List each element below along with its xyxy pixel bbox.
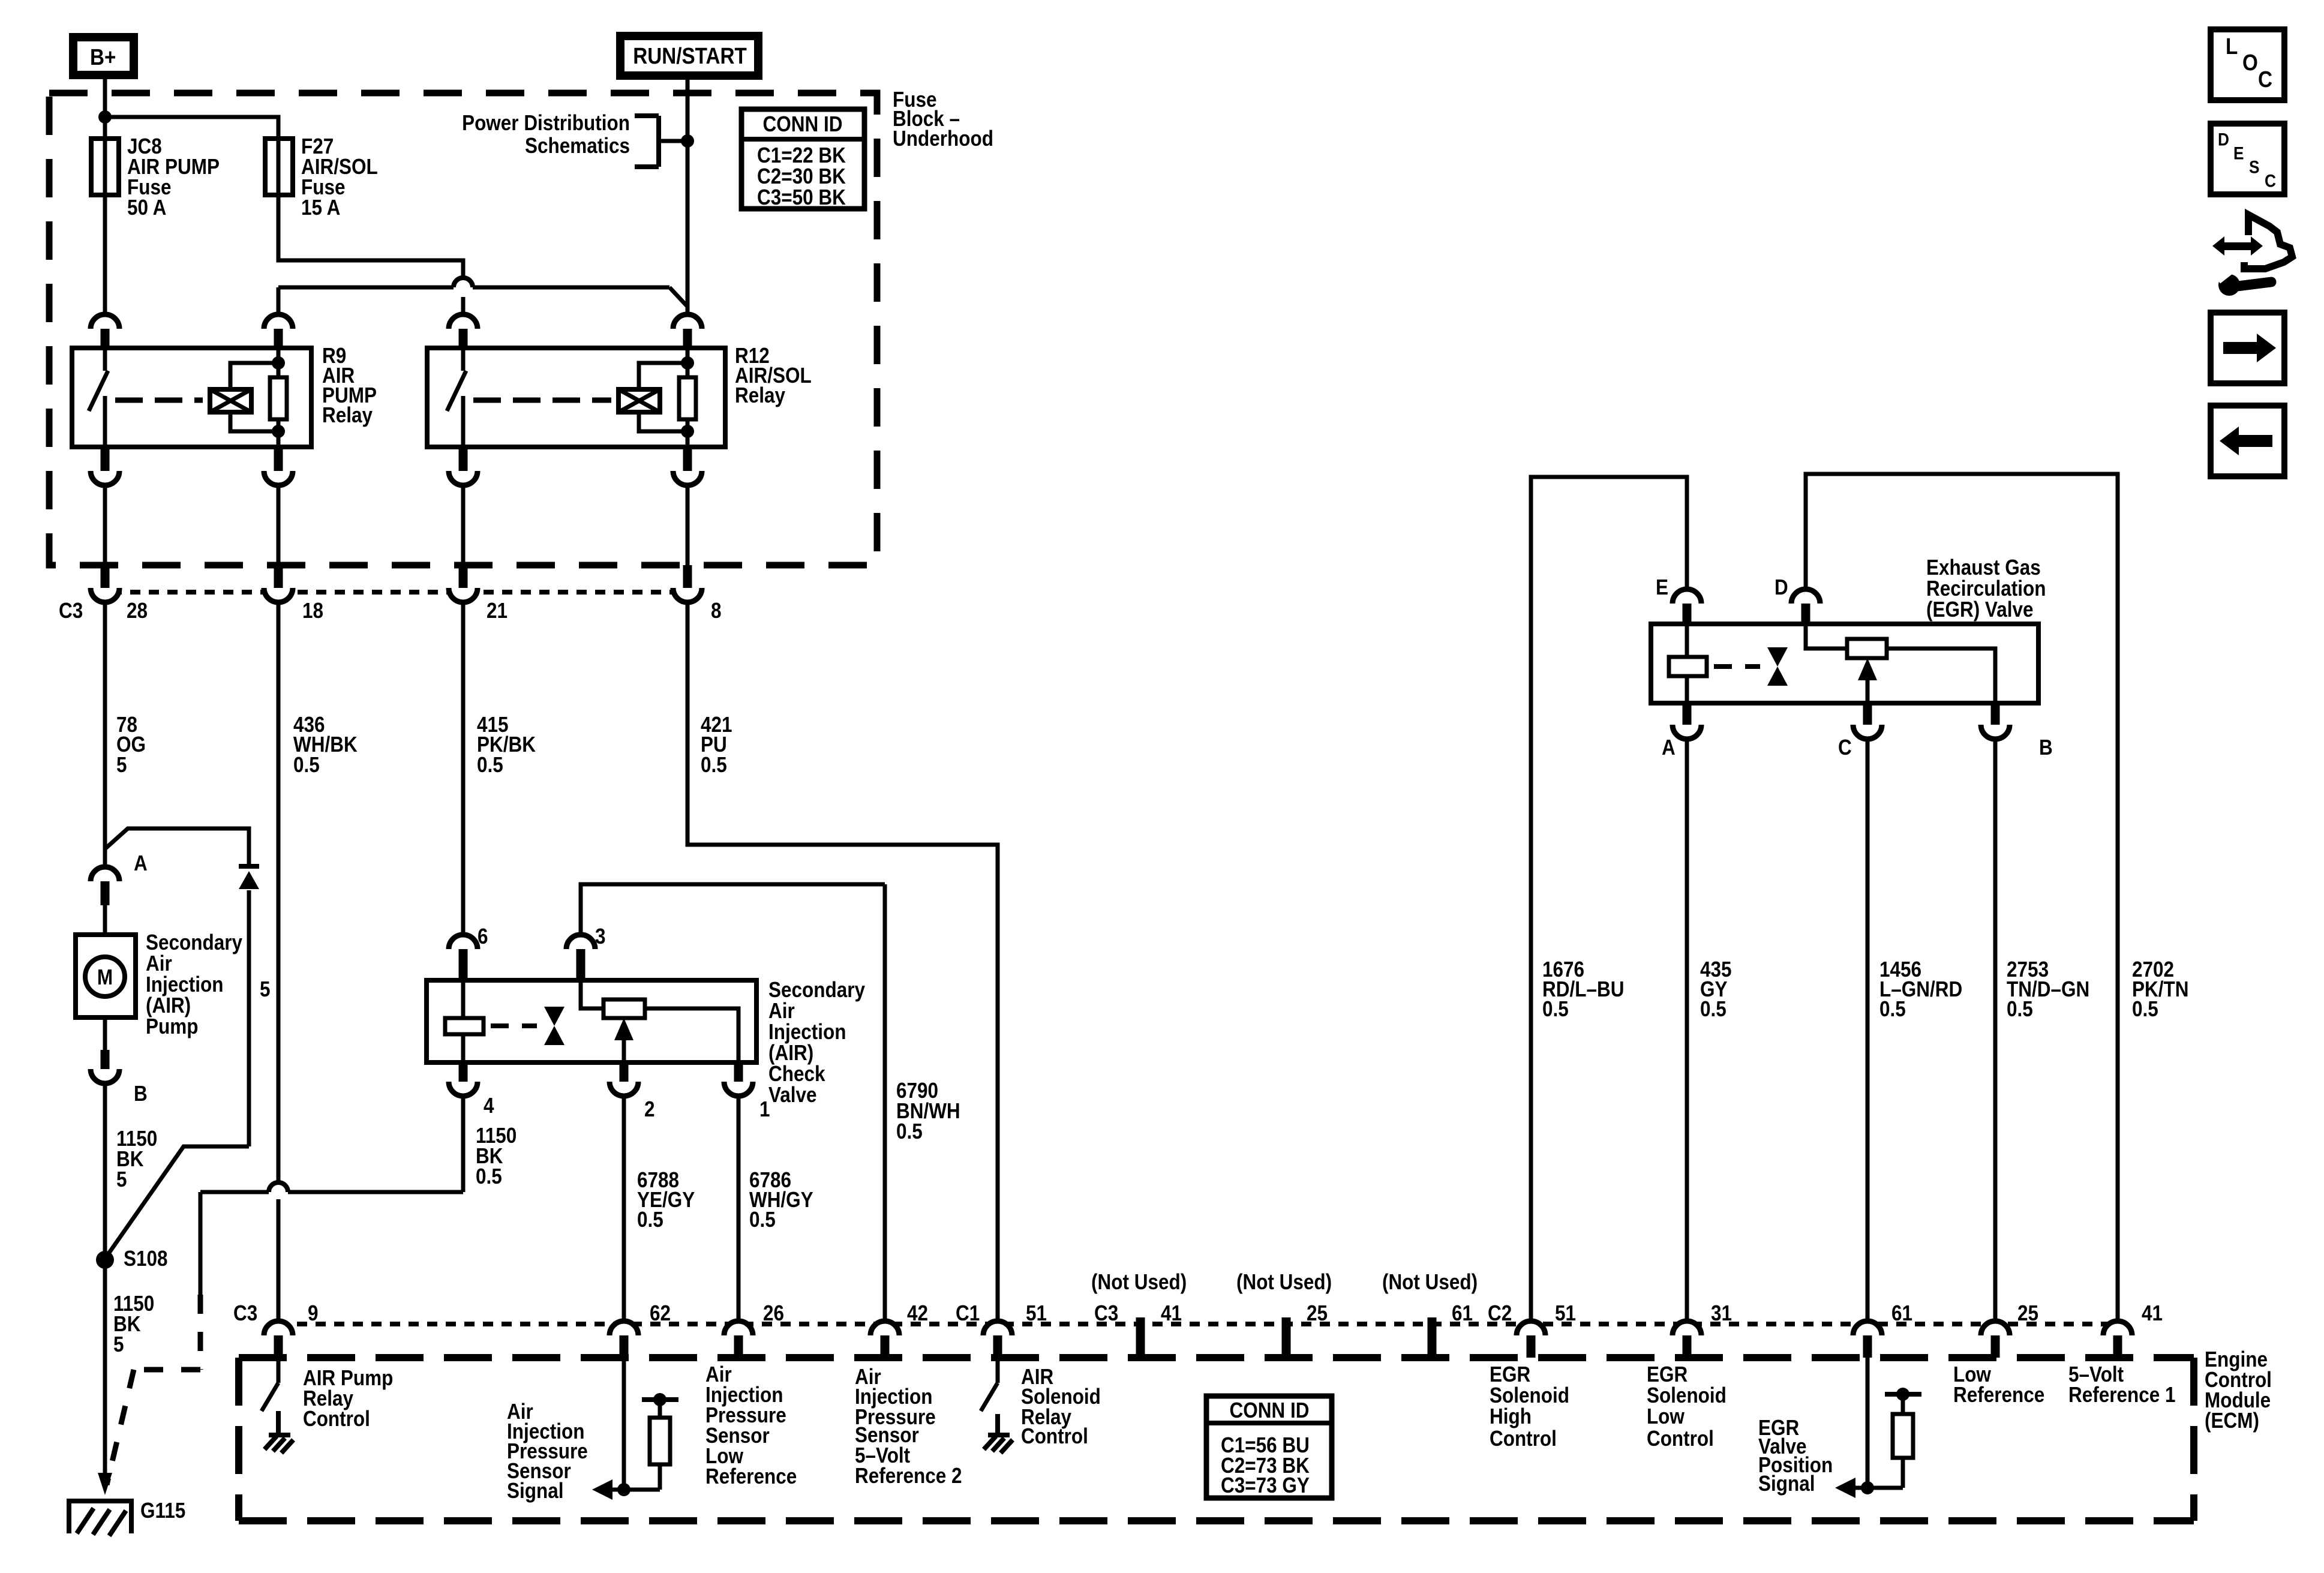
svg-text:L: L [2226,34,2238,59]
connector ECM pin 25 not used [1282,1317,1291,1355]
svg-text:0.5: 0.5 [896,1119,923,1143]
svg-text:51: 51 [1555,1301,1576,1325]
svg-text:25: 25 [2017,1301,2038,1325]
ECM ground (AIR solenoid) [984,1414,1013,1453]
svg-text:Pump: Pump [146,1014,198,1038]
connector check valve pin 1 [724,1062,753,1096]
svg-text:CONN ID: CONN ID [1230,1398,1310,1422]
connector ECM pin 62 [609,1321,638,1358]
svg-text:61: 61 [1452,1301,1473,1325]
EGR valve box [1651,624,2038,703]
wire 421 PU label [701,713,732,777]
EGR wiper arrow [1858,658,1877,703]
svg-text:0.5: 0.5 [2132,997,2158,1021]
bypass jumper 5 [105,828,259,1259]
svg-text:High: High [1490,1404,1532,1428]
svg-text:3: 3 [595,924,606,948]
relay R12 resistor [679,348,696,447]
conn id table (fuse block) [741,109,864,209]
wire 435 GY [1685,738,1689,1322]
svg-text:(Not Used): (Not Used) [1236,1270,1332,1294]
pin label 62 [650,1301,671,1325]
wire 1456 L-GN/RD [1866,738,1870,1322]
svg-text:0.5: 0.5 [293,753,320,777]
wire RUN/START down [686,77,690,316]
relay R12 box [427,348,725,447]
wire 1150 BK 0.5 [200,1095,463,1192]
connector ECM C1 pin 51 [983,1321,1012,1358]
label EGR Solenoid Low Control [1647,1362,1727,1451]
svg-text:Control: Control [1647,1427,1714,1451]
connector check valve pin 4 [449,1062,478,1096]
svg-text:4: 4 [484,1094,494,1118]
svg-text:61: 61 [1891,1301,1912,1325]
relay R9 connector pin 30 top [91,314,119,349]
crossover hop [454,278,473,287]
svg-text:0.5: 0.5 [749,1208,776,1232]
dashed ground path to G115 [107,1192,200,1485]
label EGR Valve Position Signal [1758,1416,1833,1496]
wire 6790 BN/WH down [883,884,887,1322]
wire R12 switch out [461,484,466,565]
relay R12 connector pin 85 top [673,314,702,349]
connector check valve pin 3 [566,935,595,981]
pin label 3 [595,924,606,948]
relay R12 connector pin 86 top [449,314,478,349]
label AIR Solenoid Relay Control [1021,1365,1101,1448]
connector check valve pin 2 [609,1062,638,1096]
wire 1150 BK 5 label (lower) [113,1292,154,1356]
pin label 42 [907,1301,928,1325]
svg-text:B: B [134,1082,148,1106]
svg-text:C: C [1838,736,1852,760]
svg-text:C3=73 GY: C3=73 GY [1221,1473,1310,1497]
EGR actuator dash [1714,664,1760,669]
pin label 41 (2) [2142,1301,2163,1325]
label Air Injection Pressure Sensor Low Reference [705,1362,797,1488]
ground G115 [67,1499,134,1536]
svg-text:26: 26 [763,1301,784,1325]
icon arrow right box [2211,313,2284,383]
ECM switch AIR pump relay control [262,1358,278,1411]
svg-text:Reference: Reference [1953,1383,2044,1407]
wire 1150 BK 5 label (upper) [116,1127,157,1191]
wire EGR 5V feed [1806,474,2118,1322]
wire 435 GY label [1700,957,1732,1021]
pin label A (EGR) [1662,736,1676,760]
wire 2753 TN/D-GN label [2007,957,2089,1021]
pin label C3 [233,1301,257,1325]
icon LOC box [2211,29,2284,100]
fuse block connector dotted line [112,590,687,595]
svg-text:Valve: Valve [768,1083,817,1107]
svg-text:C3: C3 [233,1301,257,1325]
relay R9 label [322,344,377,427]
svg-text:0.5: 0.5 [476,1164,502,1188]
wire 1676 RD/L-BU label [1542,957,1624,1021]
relay R9 box [72,348,311,447]
relay R12 actuator dash [473,398,611,403]
wire R9 switch out [103,484,107,565]
svg-text:0.5: 0.5 [1879,997,1906,1021]
svg-text:42: 42 [907,1301,928,1325]
pin label D [1774,575,1788,599]
svg-text:41: 41 [1161,1301,1182,1325]
pin label C (EGR) [1838,736,1852,760]
check valve label [768,978,865,1107]
fuse F27 label [301,134,378,220]
pin label B [134,1082,148,1106]
svg-text:C3: C3 [1094,1301,1118,1325]
svg-text:RUN/START: RUN/START [633,43,747,69]
connector EGR pin C [1853,703,1882,739]
connector EGR pin A [1673,703,1701,739]
svg-text:21: 21 [487,599,508,623]
svg-text:E: E [1656,575,1668,599]
relay R9 connector bottom left [91,447,119,485]
ECM connector dotted line [278,1322,2118,1326]
connector ECM C3 pin 9 [264,1321,293,1358]
relay R12 coil [618,363,687,431]
check valve valve symbol [544,1007,565,1045]
power distribution bracket [635,116,687,167]
svg-text:Control: Control [1021,1424,1088,1448]
wire F27 to relay R12 switch [278,195,463,316]
label 5-Volt Reference 1 [2068,1362,2176,1407]
icon DESC box [2211,124,2284,194]
label EGR Solenoid High Control [1490,1362,1569,1451]
pin label 26 [763,1301,784,1325]
svg-text:5: 5 [116,1167,127,1191]
icon arrow left box [2211,406,2284,476]
wire RUN/START to relay coils [278,287,687,316]
svg-text:(Not Used): (Not Used) [1382,1270,1478,1294]
svg-text:G115: G115 [140,1499,185,1523]
pin label B (EGR) [2039,736,2053,760]
wire into pump [103,903,107,935]
ECM signal arrow pin 62 [592,1358,630,1500]
check valve potentiometer [581,980,738,1062]
wire EGR solenoid high feed [1531,477,1687,1322]
svg-text:2: 2 [644,1097,655,1121]
relay R12 connector bottom left [449,447,478,485]
svg-text:B+: B+ [90,44,116,70]
EGR valve symbol [1767,647,1788,686]
svg-text:5: 5 [116,753,127,777]
connector EGR pin B [1981,703,2010,739]
relay R12 connector bottom right [673,447,702,485]
svg-text:0.5: 0.5 [637,1208,663,1232]
icon vehicle shortcut [2212,215,2292,296]
splice S108 [96,1251,114,1269]
connector ECM pin 61 not used [1428,1317,1437,1355]
svg-text:C1: C1 [956,1301,980,1325]
wire 78 OG 5 label [116,713,146,777]
node R12 coil bottom [681,425,694,438]
svg-text:18: 18 [302,599,323,623]
label S108 [124,1247,168,1271]
power distribution label [462,111,630,158]
connector C3 pin 21 [449,565,478,602]
pin label E [1656,575,1668,599]
svg-text:(ECM): (ECM) [2205,1409,2259,1433]
relay R9 switch [89,348,108,447]
fuse F27 [265,139,293,195]
relay R9 resistor [270,348,287,447]
connector ECM pin 41 not used [1136,1317,1145,1355]
svg-text:Reference 1: Reference 1 [2068,1383,2176,1407]
wire 6788 YE/GY [622,1095,626,1322]
svg-text:31: 31 [1711,1301,1732,1325]
label 5 (bypass) [260,977,271,1001]
svg-text:C3=50 BK: C3=50 BK [757,185,846,209]
svg-text:0.5: 0.5 [2007,997,2033,1021]
label (Not Used) 3 [1382,1270,1478,1294]
wire B+ down [103,79,107,139]
label (Not Used) 1 [1091,1270,1187,1294]
label (Not Used) 2 [1236,1270,1332,1294]
ECM signal arrow pin 61 [1835,1358,1874,1498]
wire JC8 to relay R9 switch [103,195,107,316]
connector ECM pin 42 [870,1321,899,1358]
fuse JC8 label [127,134,220,220]
svg-text:Signal: Signal [1758,1472,1815,1496]
wire 2753 TN/D-GN [1993,738,1998,1322]
svg-text:Control: Control [303,1407,370,1431]
svg-text:A: A [134,851,148,875]
connector pump pin A [91,867,119,905]
svg-text:S: S [2249,157,2260,177]
connector ECM C2 pin 51 [1517,1321,1545,1358]
svg-text:62: 62 [650,1301,671,1325]
relay R12 label [735,344,812,407]
svg-text:C: C [2258,67,2272,92]
label Low Reference [1953,1362,2044,1407]
svg-text:Low: Low [1647,1404,1685,1428]
wire 415 PK/BK down [461,601,466,937]
svg-text:0.5: 0.5 [701,753,727,777]
check valve wiper arrow [614,1018,633,1062]
wire 6786 WH/GY label [749,1168,813,1232]
svg-text:C: C [2265,170,2276,191]
relay R9 connector bottom right [264,447,293,485]
pin label 21 [487,599,508,623]
svg-text:28: 28 [127,599,148,623]
svg-text:S108: S108 [124,1247,168,1271]
pin label 61 [1452,1301,1473,1325]
svg-text:E: E [2233,143,2244,163]
svg-text:C2: C2 [1488,1301,1512,1325]
wire R9 coil out [277,484,281,565]
node R12 coil top [681,356,694,370]
EGR potentiometer [1806,624,1995,703]
pin label 25 (2) [2017,1301,2038,1325]
pin label C1 [956,1301,980,1325]
svg-text:25: 25 [1307,1301,1328,1325]
pin label 28 [127,599,148,623]
svg-text:CONN ID: CONN ID [762,112,842,136]
svg-text:8: 8 [711,599,722,623]
node RUN/START splice [681,134,694,148]
pin label C3 (2) [1094,1301,1118,1325]
svg-text:(EGR) Valve: (EGR) Valve [1926,598,2034,622]
svg-text:0.5: 0.5 [1700,997,1727,1021]
pin label 51 (2) [1555,1301,1576,1325]
ECM dashed box [239,1358,2194,1521]
EGR label [1926,556,2046,622]
svg-text:Underhood: Underhood [893,127,993,151]
node R9 coil top [272,356,285,370]
connector EGR pin E [1673,589,1701,625]
ECM switch AIR solenoid relay control [981,1358,998,1411]
connector check valve pin 6 [449,935,478,981]
wire 421 PU down [687,601,998,1322]
label C3 [59,599,83,623]
fuse JC8 [91,139,119,195]
pin label 31 [1711,1301,1732,1325]
svg-text:Control: Control [1490,1427,1557,1451]
node splice to F27 [98,110,112,124]
pin label 41 [1161,1301,1182,1325]
wire 1150 BK 0.5 label [476,1124,517,1188]
label AIR Pump Relay Control [303,1366,393,1431]
pin label 18 [302,599,323,623]
crossover hop 1150 over 436 [269,1182,288,1192]
wire check valve pin 3 feed [581,884,885,937]
label G115 [140,1499,185,1523]
svg-text:D: D [1774,575,1788,599]
svg-text:1: 1 [759,1097,770,1121]
svg-text:6: 6 [478,924,488,948]
wire 1150 BK 5 [103,1082,107,1479]
wire 6788 YE/GY label [637,1168,695,1232]
svg-text:5: 5 [260,977,271,1001]
wire 436 WH/BK down [277,601,281,1322]
check valve solenoid coil [445,980,484,1062]
svg-text:Schematics: Schematics [525,134,630,158]
wire 415 PK/BK label [477,713,536,777]
pin label 25 [1307,1301,1328,1325]
svg-text:51: 51 [1026,1301,1047,1325]
svg-text:C3: C3 [59,599,83,623]
svg-text:D: D [2218,129,2229,149]
check valve box [427,980,756,1062]
ECM ground (AIR pump) [265,1411,293,1453]
EGR solenoid coil [1669,624,1707,703]
pin label 9 [308,1301,319,1325]
wire 78 OG down [103,601,107,868]
svg-text:5: 5 [113,1332,124,1356]
pin label A [134,851,148,875]
connector EGR pin D [1791,589,1820,625]
relay R9 connector pin 86 top [264,314,293,349]
pin label 2 [644,1097,655,1121]
svg-text:(Not Used): (Not Used) [1091,1270,1187,1294]
svg-text:41: 41 [2142,1301,2163,1325]
fuse block - underhood dashed box [49,93,877,565]
node R9 coil bottom [272,425,285,438]
wire 2702 PK/TN label [2132,957,2188,1021]
wire 1456 L-GN/RD label [1879,957,1962,1021]
label Air Injection Pressure Sensor 5-Volt Reference 2 [855,1365,962,1488]
connector C3 pin 28 [91,565,119,602]
wire B+ to F27 [105,117,278,139]
svg-text:Signal: Signal [507,1479,563,1503]
AIR pump label [146,930,242,1038]
pin label 51 [1026,1301,1047,1325]
pin label 6 [478,924,488,948]
svg-text:Reference 2: Reference 2 [855,1464,962,1488]
relay R9 coil [210,363,278,431]
wire pump to pin B [103,1017,107,1051]
check valve actuator dash [491,1023,537,1028]
svg-text:9: 9 [308,1301,319,1325]
connector ECM pin 26 [724,1321,753,1358]
pin label 61 (2) [1891,1301,1912,1325]
pin label 1 [759,1097,770,1121]
wire 6786 WH/GY [737,1095,741,1322]
relay R12 switch [447,348,466,447]
label Air Injection Pressure Sensor Signal [507,1400,588,1503]
ground arrow [98,1473,112,1495]
wire R12 coil out [686,484,690,565]
svg-text:O: O [2242,50,2258,76]
svg-text:0.5: 0.5 [477,753,503,777]
ECM resistor pin 62 [612,1393,678,1490]
pin label 8 [711,599,722,623]
connector ECM pin 41 [2103,1321,2132,1358]
svg-text:M: M [97,965,113,989]
conn id table (ECM) [1206,1396,1332,1498]
pin label 4 [484,1094,494,1118]
AIR pump motor [76,935,136,1017]
svg-text:50 A: 50 A [127,196,166,220]
connector ECM pin 31 [1673,1321,1701,1358]
connector C3 pin 8 [673,565,702,602]
svg-text:Reference: Reference [705,1464,797,1488]
connector ECM pin 61 [1853,1321,1882,1358]
power feed B+ box [73,37,134,75]
svg-text:0.5: 0.5 [1542,997,1569,1021]
ECM label [2205,1347,2272,1433]
relay R9 actuator dash [115,398,203,403]
fuse block label [893,88,993,151]
svg-text:Power Distribution: Power Distribution [462,111,630,135]
wire 436 WH/BK label [293,713,358,777]
svg-text:B: B [2039,736,2053,760]
svg-text:A: A [1662,736,1676,760]
connector C3 pin 18 [264,565,293,602]
connector pump pin B [91,1050,119,1083]
ECM resistor pin 61 [1855,1388,1921,1488]
wire 6790 BN/WH label [896,1079,960,1143]
svg-text:Relay: Relay [735,383,785,407]
connector ECM pin 25 [1981,1321,2010,1358]
power feed RUN/START box [620,36,758,76]
svg-text:Relay: Relay [322,403,373,427]
svg-text:15 A: 15 A [301,196,340,220]
pin label C2 [1488,1301,1512,1325]
